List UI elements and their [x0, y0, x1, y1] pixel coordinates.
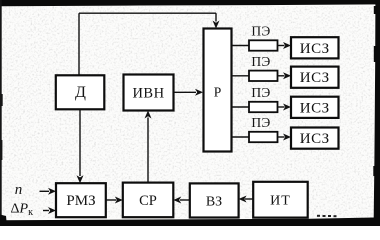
frame top edge: [0, 0, 380, 6]
wire СР up to ИВН with arrow: [145, 111, 152, 183]
svg-text:ПЭ: ПЭ: [251, 85, 270, 100]
block Р: [204, 29, 232, 152]
block СР: [123, 183, 174, 218]
block ПЭ 4: [249, 115, 278, 142]
block ПЭ 1: [249, 24, 278, 51]
block Д: [56, 75, 105, 109]
dotted marks above bottom bar: [317, 215, 337, 217]
svg-text:ИСЗ: ИСЗ: [300, 100, 330, 116]
block ИСЗ 3: [291, 97, 339, 118]
wire ИТ to ВЗ with arrow (leftward): [239, 196, 254, 203]
wire vertical down to block Д top: [78, 13, 80, 75]
svg-text:ПЭ: ПЭ: [251, 54, 270, 69]
wire ВЗ to СР with arrow (leftward): [173, 197, 190, 204]
frame bottom edge: [0, 217, 380, 226]
wire ПЭ1 to ИСЗ1 with arrow: [278, 42, 292, 49]
frame left edge: [0, 0, 2, 226]
wire ИВН to Р with arrow: [174, 89, 203, 96]
block ИСЗ 2: [291, 67, 339, 88]
svg-text:РМЗ: РМЗ: [66, 193, 95, 209]
svg-text:ИСЗ: ИСЗ: [300, 70, 330, 86]
bottom-left corner blob: [0, 215, 7, 227]
block ПЭ 3: [249, 85, 278, 112]
svg-text:n: n: [15, 182, 23, 198]
block ВЗ: [190, 183, 239, 217]
svg-text:ПЭ: ПЭ: [251, 115, 270, 130]
wire input ΔPк into РМЗ with arrow: [43, 207, 56, 214]
wire Р to ПЭ row3: [232, 106, 249, 108]
svg-text:ИСЗ: ИСЗ: [300, 41, 330, 57]
svg-text:ВЗ: ВЗ: [206, 195, 222, 210]
frame right edge: [374, 0, 380, 226]
block ИСЗ 4: [291, 128, 339, 149]
wire ПЭ3 to ИСЗ3 with arrow: [278, 104, 292, 111]
svg-text:СР: СР: [139, 193, 157, 209]
svg-text:ИВН: ИВН: [132, 86, 164, 102]
svg-text:Р: Р: [214, 85, 222, 100]
wire ПЭ4 to ИСЗ4 with arrow: [278, 134, 292, 141]
block ИСЗ 1: [291, 37, 339, 58]
wire input n into РМЗ with arrow: [40, 188, 57, 195]
wire Д down to РМЗ with arrow: [77, 110, 84, 184]
svg-text:ИСЗ: ИСЗ: [300, 131, 330, 147]
block ИВН: [124, 75, 174, 111]
block ИТ: [253, 182, 308, 218]
wire vertical into Р top with arrow: [215, 13, 217, 21]
block ПЭ 2: [249, 54, 278, 81]
wire Р to ПЭ row4: [232, 136, 249, 138]
svg-text:ИТ: ИТ: [270, 194, 291, 209]
wire Р to ПЭ row1: [232, 45, 249, 47]
svg-text:Д: Д: [75, 84, 86, 101]
wire ПЭ2 to ИСЗ2 with arrow: [278, 72, 292, 79]
svg-text:ПЭ: ПЭ: [251, 24, 270, 39]
wire top horizontal from Д up-over to Р: [79, 12, 216, 14]
wire РМЗ to СР with arrow: [106, 197, 123, 204]
wire Р to ПЭ row2: [232, 75, 249, 77]
block РМЗ: [56, 183, 106, 217]
